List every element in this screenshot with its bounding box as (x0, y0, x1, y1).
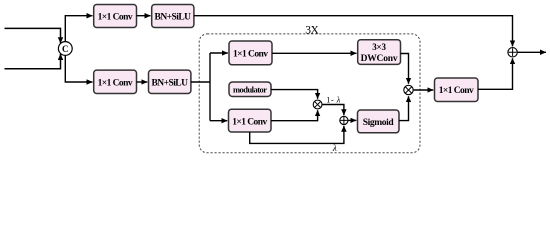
wire C to top conv (65, 16, 92, 42)
svg-text:3X: 3X (305, 25, 319, 37)
svg-text:3×3: 3×3 (372, 42, 386, 52)
svg-text:1×1 Conv: 1×1 Conv (233, 49, 268, 59)
wire conv1 to bn1 (137, 15, 151, 17)
wire conv2 to bn2 (137, 81, 148, 83)
svg-text:λ: λ (332, 143, 337, 153)
label 1 - lambda (326, 94, 340, 104)
svg-text:1×1 Conv: 1×1 Conv (439, 86, 474, 96)
box 1x1 Conv (bottom-left) (94, 70, 137, 93)
wire left multiplier to adder (322, 105, 344, 116)
svg-text:modulator: modulator (233, 85, 267, 95)
wire input 2 (bottom left) (5, 54, 61, 69)
svg-text:BN+SiLU: BN+SiLU (155, 12, 192, 22)
wire trunk to inner bottom conv (210, 120, 227, 122)
wire Sigmoid to right multiplier (399, 96, 409, 120)
adder circle (top right, circle-plus) (508, 48, 517, 57)
wire lambda feedback from inner bottom conv to adder (250, 126, 344, 144)
box 1x1 Conv (right) (435, 78, 479, 102)
adder circle (middle, circle-plus) (340, 116, 348, 124)
label lambda (332, 143, 337, 153)
wire C to bottom conv (65, 55, 92, 82)
svg-text:1×1 Conv: 1×1 Conv (98, 12, 133, 22)
wire input 1 (top left) (5, 28, 61, 43)
box 3x3 DWConv (358, 40, 401, 65)
multiplier circle (right, circle-times) (404, 85, 413, 94)
box 1x1 Conv (top) (94, 5, 137, 28)
wire DWConv to right multiplier (401, 54, 409, 84)
box 1x1 Conv (inner top) (229, 41, 272, 65)
svg-text:1×1 Conv: 1×1 Conv (232, 117, 267, 127)
wire right conv to top-right adder (478, 58, 513, 89)
dashed container box (3X block) (199, 34, 420, 153)
label 3X (305, 25, 319, 37)
svg-text:1- λ: 1- λ (326, 94, 340, 104)
wire inner conv to DWConv (272, 52, 357, 54)
wire right multiplier to right conv (414, 89, 434, 91)
svg-text:BN+SiLU: BN+SiLU (151, 78, 188, 88)
wire trunk vertical (209, 53, 211, 121)
wire bn2 into dashed block trunk (191, 81, 210, 83)
svg-text:C: C (62, 44, 69, 54)
box BN+SiLU (bottom) (149, 70, 191, 93)
wire adder to Sigmoid (348, 119, 356, 121)
wire bn1 to top-right adder (194, 16, 513, 47)
svg-text:1×1 Conv: 1×1 Conv (98, 78, 133, 88)
concat circle C (58, 42, 72, 56)
svg-text:DWConv: DWConv (361, 54, 398, 64)
wire inner bottom conv to left multiplier (271, 110, 318, 121)
svg-text:Sigmoid: Sigmoid (363, 118, 395, 128)
box Sigmoid (358, 110, 400, 133)
box 1x1 Conv (inner bottom) (229, 109, 272, 132)
box BN+SiLU (top) (152, 5, 194, 28)
wire modulator to left multiplier (271, 90, 318, 99)
wire output (517, 51, 546, 53)
box modulator (229, 82, 271, 97)
wire trunk to inner top conv (210, 52, 228, 54)
multiplier circle (left, circle-times) (313, 100, 322, 109)
